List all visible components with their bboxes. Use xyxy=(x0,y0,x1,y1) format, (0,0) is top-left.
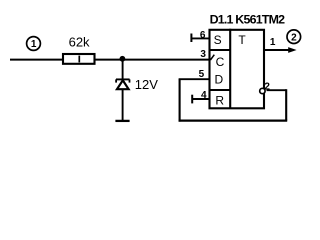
dynamic input tick on C xyxy=(210,55,214,60)
wire zener to ground xyxy=(122,89,124,120)
wire feedback right vertical xyxy=(285,89,287,120)
op-amp U1 flip-flop body D1.1 xyxy=(209,29,265,109)
junction dot xyxy=(120,56,126,62)
svg-text:62k: 62k xyxy=(69,34,90,49)
wire feedback bottom xyxy=(179,119,288,121)
pin 5 wire (D input) xyxy=(179,78,211,80)
node 2 (circled terminal 2) xyxy=(287,30,301,44)
pin 1 output wire with arrow xyxy=(264,47,297,53)
zener diode VD 12V xyxy=(116,79,130,89)
pin 4 wire (R input) xyxy=(192,95,210,104)
svg-text:3: 3 xyxy=(200,49,206,60)
svg-text:D1.1 K561TM2: D1.1 K561TM2 xyxy=(210,13,286,27)
svg-text:4: 4 xyxy=(201,90,207,101)
wire input left segment xyxy=(10,59,63,61)
svg-text:1: 1 xyxy=(270,37,276,48)
svg-text:1: 1 xyxy=(31,39,37,50)
node 1 (circled terminal 1) xyxy=(27,37,41,51)
svg-text:S: S xyxy=(214,33,222,47)
svg-text:T: T xyxy=(238,33,246,47)
svg-text:C: C xyxy=(216,55,225,69)
svg-text:D: D xyxy=(214,72,223,86)
pin 6 wire (S input) xyxy=(191,34,210,43)
wire resistor to C input xyxy=(95,59,211,61)
resistor R 62k xyxy=(63,54,95,64)
svg-text:12V: 12V xyxy=(135,77,158,92)
wire junction down to zener xyxy=(122,59,124,80)
ground xyxy=(115,120,129,122)
wire pin2 to right corner xyxy=(267,89,287,91)
svg-text:2: 2 xyxy=(291,32,297,43)
svg-text:6: 6 xyxy=(200,30,206,41)
svg-text:R: R xyxy=(215,93,224,107)
inversion bubble on pin 2 output xyxy=(260,88,265,93)
wire feedback left vertical xyxy=(179,79,181,121)
